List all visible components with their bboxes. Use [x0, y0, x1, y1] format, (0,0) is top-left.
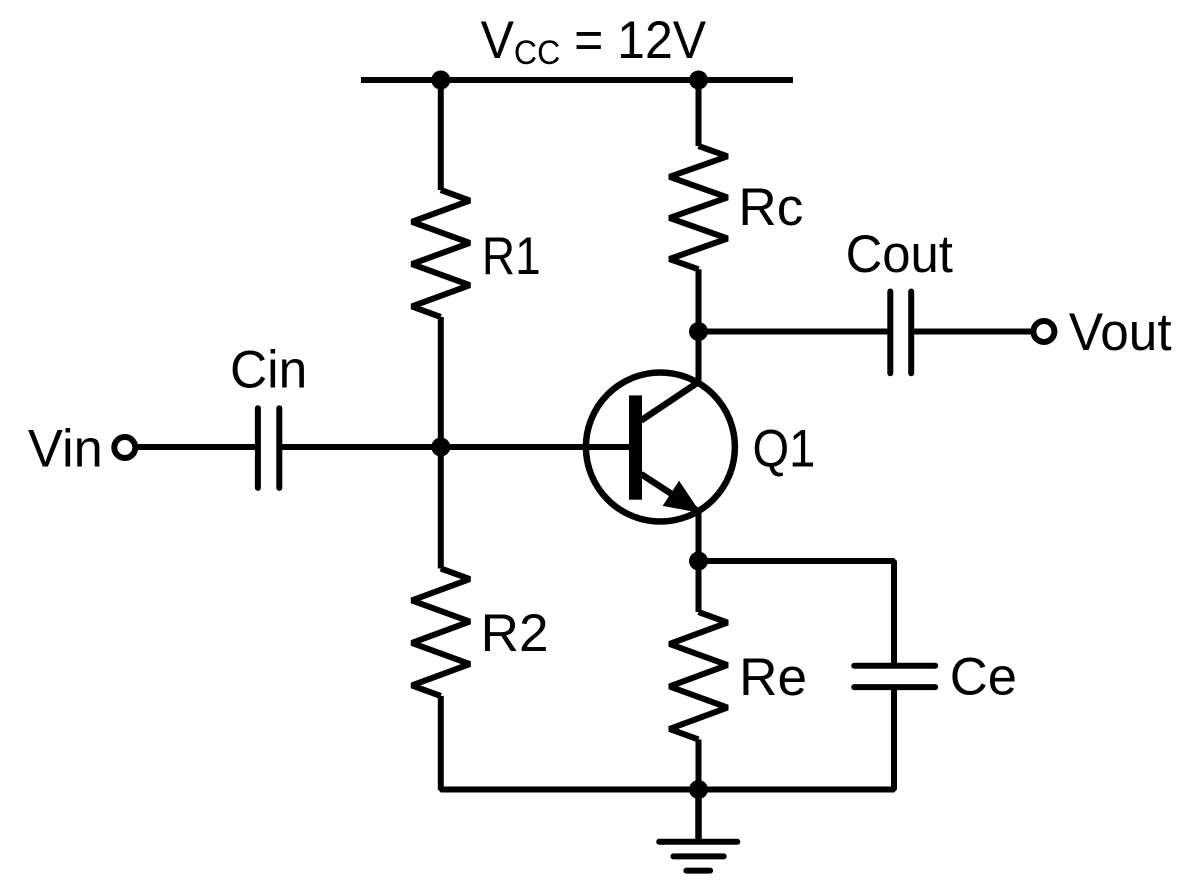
svg-text:Cin: Cin [230, 341, 307, 400]
svg-text:Rc: Rc [738, 178, 803, 237]
svg-text:Re: Re [739, 648, 807, 707]
svg-text:Vout: Vout [1069, 303, 1172, 362]
svg-text:Ce: Ce [950, 647, 1017, 706]
svg-text:Q1: Q1 [753, 419, 816, 478]
svg-text:R2: R2 [481, 604, 549, 663]
svg-text:Cout: Cout [846, 225, 954, 284]
svg-text:R1: R1 [482, 226, 541, 286]
svg-text:Vin: Vin [28, 419, 103, 478]
